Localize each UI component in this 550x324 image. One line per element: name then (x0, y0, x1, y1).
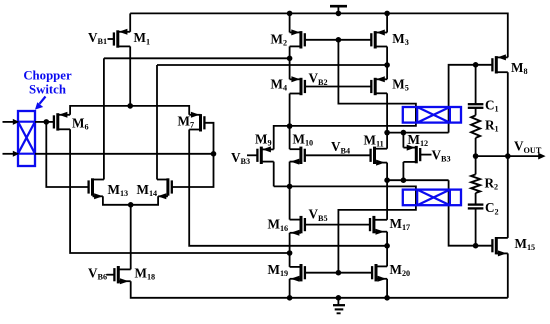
node dot chopper-top (44, 119, 50, 125)
chopper switch top-right (403, 107, 461, 123)
junction dot VOUT-R1 (473, 153, 479, 159)
wire VB6 to M18 gate (107, 274, 115, 276)
wire M11 drain up (386, 133, 388, 149)
wire M6 drain to M19 node (70, 129, 290, 253)
junction dot pair tail (128, 202, 134, 208)
wire VB1 to M1 gate (108, 38, 115, 40)
wire M12 bottom down (402, 162, 404, 180)
junction dot rail-M19 (287, 295, 293, 301)
wire M3 drain down (386, 47, 388, 66)
wire VB2 gates (305, 86, 372, 88)
label M5 (392, 76, 409, 92)
junction dot VDD-M3 (384, 11, 390, 17)
label M17 (390, 216, 411, 232)
transistor M2 (290, 29, 305, 48)
transistor M11 (371, 147, 388, 166)
label M12 (408, 132, 429, 148)
resistor R1 (471, 115, 480, 137)
capacitor C2 (468, 205, 484, 209)
wire R2 to C2 (475, 193, 477, 205)
wire M3 source up (386, 13, 388, 32)
wire M10 bottom down (289, 162, 291, 187)
junction dot lnode-M12 (401, 177, 407, 183)
wire M2 M3 gates (305, 39, 372, 41)
chopper switch bottom-right (403, 190, 461, 206)
wire C2 to M15 gate node (475, 208, 477, 245)
wire R1 to VOUT (475, 138, 477, 156)
transistor M20 (372, 264, 387, 282)
wire M19 M20 gates (305, 272, 373, 274)
wire M17 drain up (386, 180, 388, 220)
input arrow bottom (3, 151, 20, 157)
label VB3 left (231, 150, 250, 166)
transistor M10 (290, 147, 305, 165)
wire PMOS pair tail (70, 106, 189, 115)
junction dot lower-M10 (287, 184, 293, 190)
junction dot rail-M20 (384, 295, 390, 301)
transistor M14 (157, 178, 172, 199)
wire VB5 gates (305, 224, 371, 226)
label M13 (108, 182, 129, 198)
wire mirror-gate loop (274, 40, 416, 150)
wire chopper-top to M13 gate (46, 122, 89, 187)
label Chopper Switch (23, 69, 72, 97)
wire M1 drain down (129, 46, 131, 106)
wire M15 source down (507, 253, 509, 297)
label M1 (134, 30, 151, 46)
wire to M6 gate (46, 121, 54, 123)
transistor M7 (189, 112, 204, 132)
wire B M3 drain to M14 (157, 64, 387, 66)
transistor M6 (54, 112, 70, 131)
junction dot M16-M6wire (287, 250, 293, 256)
label M20 (390, 262, 411, 278)
wire lower cascode node (387, 179, 449, 181)
top VDD rail wire (130, 13, 508, 57)
transistor M8 (492, 54, 507, 73)
wire M1 source to rail (129, 13, 131, 31)
label M6 (72, 115, 89, 131)
wire M16 drain up (289, 186, 291, 219)
junction dot wireB-M5 (384, 62, 390, 68)
label M18 (135, 265, 156, 281)
wire M7 drain to M20 node (189, 130, 387, 246)
wire VB4 gates (305, 154, 371, 156)
junction dot tail-M1 (127, 103, 133, 109)
wire to M8 gate (449, 65, 493, 133)
wire M2 source up (289, 13, 291, 32)
junction dot M8 gate node (473, 62, 479, 68)
junction dot rail-gnd (336, 295, 342, 301)
transistor M18 (114, 266, 130, 284)
transistor M17 (370, 216, 387, 235)
ground (333, 298, 345, 314)
junction dot VDD-stub (336, 11, 342, 17)
transistor M9 (257, 146, 273, 164)
label M4 (271, 76, 288, 92)
wire M8 drain to VOUT (507, 72, 509, 156)
label M3 (392, 31, 409, 47)
label M2 (271, 32, 288, 48)
label VB1 (88, 30, 107, 46)
wire M12 gate to VB3 (420, 154, 432, 156)
label M9 (255, 131, 272, 147)
transistor M15 (492, 237, 507, 256)
wire chopper top output (35, 121, 46, 123)
wire M19 source down (289, 279, 291, 298)
label M19 (268, 262, 289, 278)
label M14 (137, 182, 158, 198)
label VOUT (514, 139, 542, 155)
label VB5 (309, 207, 328, 223)
node dot chopper-bottom (211, 151, 217, 157)
svg-text:Switch: Switch (29, 82, 66, 96)
transistor M16 (290, 216, 305, 236)
wire M16 source down (289, 233, 291, 253)
junction dot VOUT-M8 (505, 153, 511, 159)
junction dot M15 gate node (473, 243, 479, 249)
wire chopper bottom output (35, 153, 214, 155)
junction dot VDD-M2 (287, 11, 293, 17)
wire M13 drain up (103, 58, 105, 179)
transistor M5 (371, 76, 387, 95)
transistor M3 (371, 30, 387, 49)
wire M20 source down (386, 279, 388, 298)
wire M2 drain down (289, 46, 291, 58)
junction dot gate wire (336, 37, 342, 43)
wire tail to M18 (130, 205, 132, 270)
wire M19 drain up (289, 253, 291, 267)
wire M8gate to C1 (475, 65, 477, 104)
wire M17 source down (386, 232, 388, 267)
resistor R2 (471, 174, 480, 193)
label R1 (485, 117, 499, 133)
wire chopper-bottom to M14 gate (172, 154, 214, 187)
wire C1 to R1 (475, 108, 477, 116)
junction dot node-M12 (401, 130, 407, 136)
wire M4 drain down (289, 94, 291, 127)
wire M11 source down (386, 163, 388, 181)
wire VB3 to M9 gate (247, 154, 258, 156)
junction dot lnode-M11 (384, 177, 390, 183)
wire M10 top up (289, 126, 291, 149)
wire VOUT to R2 (475, 156, 477, 174)
transistor M19 (290, 264, 305, 282)
label VB2 (309, 71, 328, 87)
wire M15 drain to VOUT (507, 156, 509, 238)
label M8 (511, 60, 528, 76)
capacitor C1 (468, 104, 484, 108)
junction dot M17-M7wire (384, 243, 390, 249)
label VB6 (88, 265, 107, 281)
VDD supply bar (330, 6, 347, 13)
input arrow top (3, 119, 20, 125)
wire M5 drain down (386, 93, 388, 132)
label M10 (293, 131, 314, 147)
chopper switch box (18, 111, 35, 166)
label C1 (485, 97, 499, 113)
label VB4 (331, 139, 350, 155)
wire M13 M14 common source (103, 196, 158, 205)
label M15 (515, 236, 536, 252)
junction dot loop-M10 (287, 123, 293, 129)
label C2 (485, 200, 499, 216)
label VB3 right (432, 148, 451, 164)
junction dot gates-loop (336, 270, 342, 276)
transistor M12 (403, 145, 420, 164)
wire M4 source up (289, 58, 291, 79)
output arrow (538, 153, 545, 160)
wire to M15 gate (449, 180, 493, 246)
wire upper cascode node (387, 132, 449, 134)
label M11 (364, 132, 384, 148)
transistor M1 (114, 29, 130, 48)
wire lower node to loop (274, 186, 416, 272)
wire M12 top up (402, 133, 404, 148)
wire to M7 gate (204, 123, 213, 154)
transistor M13 (89, 178, 104, 199)
label R2 (485, 175, 499, 191)
wire M18 source to ground rail (131, 281, 508, 298)
wire M14 drain up (156, 65, 158, 180)
wire A M2 drain to M13 (104, 57, 290, 59)
transistor M4 (290, 76, 305, 95)
chopper label arrow (35, 97, 46, 110)
wire M9 bottom to lower wire (273, 162, 275, 187)
label M16 (268, 217, 289, 233)
svg-text:Chopper: Chopper (23, 69, 72, 83)
wire VOUT (476, 155, 539, 157)
wire M5 source up (386, 65, 388, 79)
junction dot node-M11 (384, 130, 390, 136)
label M7 (178, 114, 195, 130)
junction dot wireA-M4 (287, 56, 293, 62)
